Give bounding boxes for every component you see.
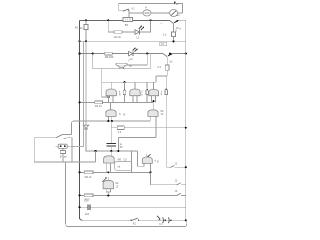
label LC1 box xyxy=(160,42,167,45)
dome D legs xyxy=(109,116,112,121)
transistor dome F xyxy=(104,156,115,163)
wire Q2 emitter xyxy=(166,57,168,65)
svg-text:R: R xyxy=(119,92,121,96)
node right-167 xyxy=(185,166,187,168)
svg-text:LC: LC xyxy=(161,42,164,46)
switch S2 xyxy=(56,134,63,138)
wire switch drop to fuse xyxy=(128,11,130,18)
resistor R6 xyxy=(146,90,148,94)
resistor R10 xyxy=(84,171,93,174)
dome B legs xyxy=(133,96,137,103)
dome H arrow xyxy=(102,178,106,182)
K1 row xyxy=(150,172,185,184)
svg-text:V: V xyxy=(145,5,147,9)
wire dome D bottom row xyxy=(72,121,75,135)
svg-text:R2 1k: R2 1k xyxy=(114,35,121,39)
wire speaker hangers xyxy=(127,54,147,65)
dome C legs xyxy=(152,96,156,103)
resistor R4 xyxy=(165,65,169,70)
svg-text:2 2: 2 2 xyxy=(157,65,161,69)
node bus2-a xyxy=(85,40,87,42)
dome ticks row1 xyxy=(111,82,153,89)
dome G legs xyxy=(144,163,151,172)
node Q2-c xyxy=(169,53,171,55)
svg-text:R1: R1 xyxy=(75,25,79,29)
LED D1 xyxy=(135,30,139,35)
svg-text:R9 1k: R9 1k xyxy=(85,175,92,179)
transistor dome D xyxy=(110,102,112,109)
svg-text:Y: Y xyxy=(128,58,130,62)
bus3 y=53.6 xyxy=(80,53,164,55)
node bus3-left xyxy=(78,53,80,55)
svg-text:BX: BX xyxy=(125,23,129,27)
dome F tick xyxy=(110,151,112,156)
transistor dome C xyxy=(149,89,159,95)
speaker Y xyxy=(116,63,127,65)
svg-text:YD: YD xyxy=(128,64,132,68)
svg-text:C3: C3 xyxy=(84,198,88,202)
relay K xyxy=(58,144,67,148)
battery-plug symbol xyxy=(157,216,160,219)
wire V1 xyxy=(80,20,83,220)
wire V2a xyxy=(72,41,83,146)
arrow above M2 xyxy=(174,2,176,5)
bottom line xyxy=(83,219,186,221)
left box enclosure xyxy=(34,138,95,162)
wire speaker line xyxy=(93,54,151,69)
transistor dome E xyxy=(152,102,154,109)
svg-text:C5: C5 xyxy=(123,158,127,162)
crystal B xyxy=(60,150,65,153)
node bus2-left xyxy=(79,40,81,42)
node bus1-c xyxy=(149,19,151,21)
wire R3 row xyxy=(80,101,95,103)
dome E legs xyxy=(150,116,156,137)
svg-text:R8: R8 xyxy=(118,158,122,162)
transistor Q1 xyxy=(170,20,174,23)
dome G tick xyxy=(146,154,148,157)
resistor R3 xyxy=(95,101,103,104)
svg-text:104: 104 xyxy=(85,212,90,216)
wire V2b xyxy=(85,41,87,125)
LED D2 xyxy=(129,51,133,55)
node speaker-riser xyxy=(92,53,94,55)
wire box bottom riser xyxy=(95,151,97,162)
node domeA-leg xyxy=(107,96,109,98)
wire cap branch xyxy=(110,121,112,143)
wire bottom return xyxy=(69,221,187,227)
wire V2b lower xyxy=(86,129,138,151)
node bus1-b xyxy=(107,19,109,21)
wire V0 xyxy=(66,162,69,227)
box bottom line right xyxy=(166,166,186,168)
wire M1 to M2 xyxy=(151,12,170,14)
wire yB xyxy=(118,138,156,151)
node bus3-right xyxy=(185,53,187,55)
bus1 y=20.3 xyxy=(80,19,170,21)
wire switch to meter xyxy=(129,10,143,13)
bank top line xyxy=(102,81,156,83)
C3 row xyxy=(80,206,186,208)
dome G arrow xyxy=(148,154,151,156)
capacitor C3 xyxy=(88,205,90,210)
node bus3-mid xyxy=(146,53,148,55)
transistor dome G xyxy=(142,157,152,163)
meter M2 xyxy=(170,10,178,17)
dome H legs xyxy=(106,189,110,196)
wire top box outline xyxy=(119,4,183,13)
wire M2 right xyxy=(178,12,183,14)
resistor R2 xyxy=(105,52,112,55)
component on line126 xyxy=(117,126,124,130)
switch S1 contacts xyxy=(123,10,124,11)
fuse box on bus1 xyxy=(123,18,133,22)
node bus2-b xyxy=(172,40,174,42)
resistor R1 xyxy=(85,20,87,24)
wire D1 up xyxy=(140,20,151,32)
wire switch feed xyxy=(119,10,124,12)
wire V-right xyxy=(185,20,187,220)
capacitor C2 xyxy=(107,142,117,144)
svg-text:K2: K2 xyxy=(133,222,137,226)
node bus1-a xyxy=(85,19,87,21)
node V1-R3 xyxy=(78,101,80,103)
dome H tick xyxy=(107,177,109,180)
diode D3 xyxy=(83,125,88,128)
transistor dome B xyxy=(130,89,140,96)
resistor R7 xyxy=(165,90,167,95)
wire line y150 nodes xyxy=(94,150,96,152)
wire link to dome row xyxy=(63,134,72,136)
node right-126 xyxy=(185,127,187,129)
dome F legs xyxy=(106,163,110,172)
resistor RD1 xyxy=(114,31,122,34)
node row-102 xyxy=(152,100,154,102)
node legD-b xyxy=(111,120,113,122)
wire branch D1 xyxy=(108,20,114,32)
svg-text:4 3: 4 3 xyxy=(118,130,122,134)
wire x166 drop xyxy=(165,76,167,167)
node legD-a xyxy=(107,120,109,122)
meter M1 xyxy=(143,10,151,16)
switch S1 xyxy=(124,9,129,11)
K2 row xyxy=(80,194,86,196)
resistor R-Q1 xyxy=(172,32,176,37)
transistor dome A xyxy=(106,89,116,96)
svg-text:R4 1k: R4 1k xyxy=(95,104,102,108)
transistor dome H xyxy=(103,180,113,188)
svg-text:R3 220: R3 220 xyxy=(105,55,114,59)
rounded enclosure mid xyxy=(115,162,132,171)
resistor R11 xyxy=(84,194,93,197)
dome A legs xyxy=(109,96,114,103)
wire line y126 xyxy=(111,127,186,129)
wire R4 step to bank xyxy=(156,76,167,82)
switch S3 xyxy=(132,218,138,220)
bus2 y=41.3 xyxy=(80,40,186,42)
transistor Q2 xyxy=(163,54,167,57)
svg-text:K1: K1 xyxy=(132,6,136,10)
resistor R5 xyxy=(124,82,126,90)
node bank-R5 xyxy=(123,81,125,83)
wire zigzag to dome G xyxy=(131,151,133,172)
R10 line xyxy=(80,171,86,173)
svg-text:B: B xyxy=(60,154,62,158)
